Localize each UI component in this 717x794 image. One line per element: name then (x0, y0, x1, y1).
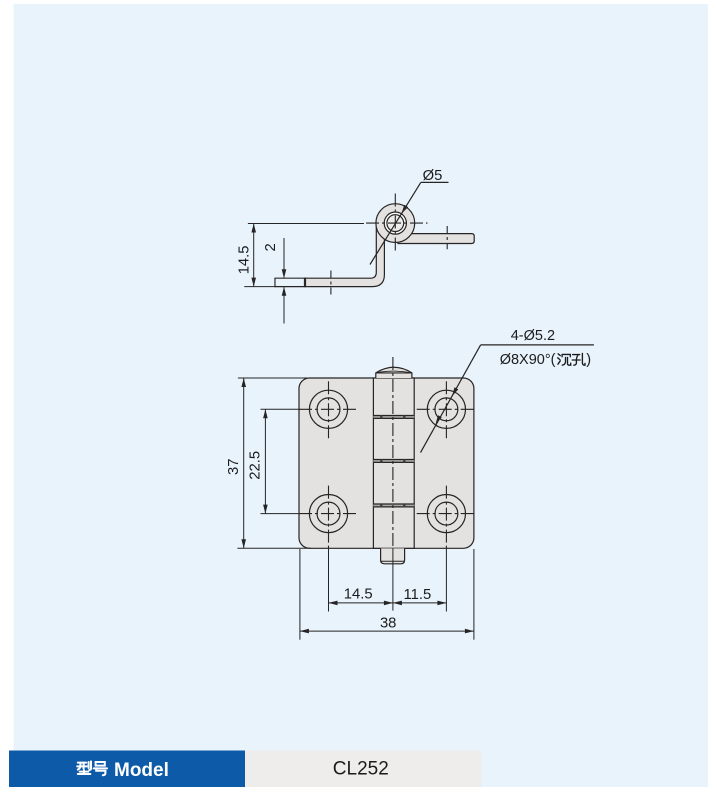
svg-text:22.5: 22.5 (248, 451, 264, 480)
svg-text:2: 2 (263, 243, 279, 251)
svg-text:Ø5: Ø5 (423, 168, 443, 184)
svg-text:37: 37 (226, 459, 242, 475)
svg-text:Ø8X90°(: Ø8X90°( (500, 352, 556, 368)
svg-text:CL252: CL252 (333, 759, 389, 780)
svg-text:11.5: 11.5 (404, 587, 432, 603)
svg-text:Model: Model (114, 760, 169, 781)
svg-text:14.5: 14.5 (344, 587, 373, 603)
svg-text:4-Ø5.2: 4-Ø5.2 (511, 328, 555, 344)
svg-text:38: 38 (380, 615, 396, 631)
svg-text:14.5: 14.5 (237, 245, 253, 274)
svg-text:): ) (586, 352, 591, 368)
